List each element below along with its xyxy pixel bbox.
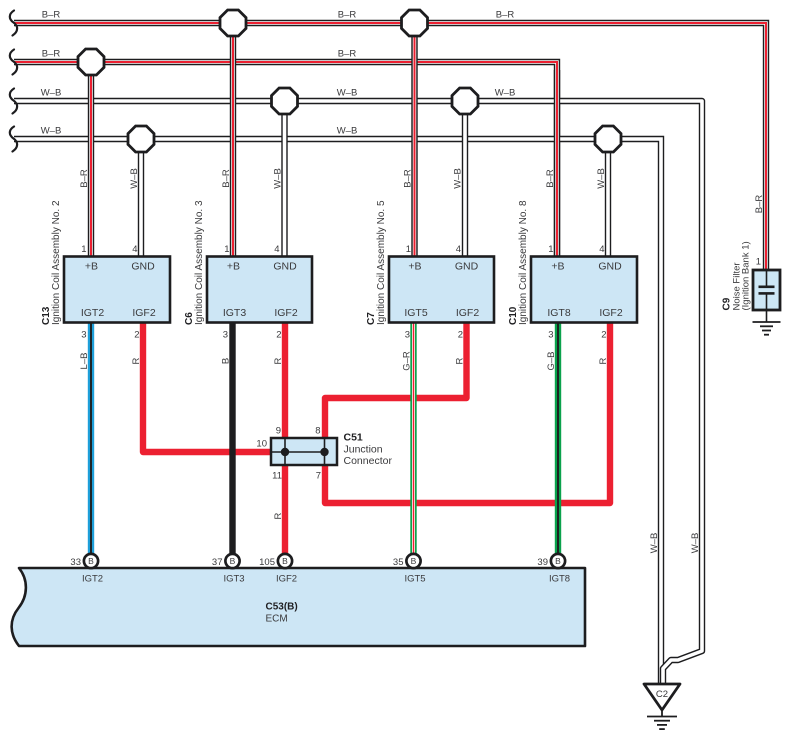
svg-text:B–R: B–R bbox=[221, 169, 232, 188]
svg-text:B–R: B–R bbox=[496, 10, 515, 21]
wire W-B drop to C10 GND bbox=[605, 139, 611, 256]
ECM pin circle 35 bbox=[406, 554, 420, 568]
C51 junction dot left bbox=[281, 448, 289, 456]
wire B-R drop to C13 +B bbox=[88, 62, 94, 256]
svg-text:Connector: Connector bbox=[344, 455, 393, 467]
svg-text:Ignition Coil Assembly No. 8: Ignition Coil Assembly No. 8 bbox=[518, 200, 529, 325]
octagon node row1 C7 bbox=[402, 10, 428, 36]
C51 junction dot right bbox=[320, 448, 328, 456]
svg-text:B–R: B–R bbox=[545, 169, 556, 188]
C9 capacitor plate top bbox=[759, 285, 775, 288]
svg-text:11: 11 bbox=[272, 471, 282, 482]
svg-text:IGF2: IGF2 bbox=[274, 307, 297, 319]
bus row 3 W-B bbox=[14, 101, 702, 684]
wire W-B drop to C6 GND bbox=[281, 101, 287, 256]
svg-text:4: 4 bbox=[456, 244, 461, 255]
wire W-B drop to C7 GND bbox=[462, 101, 468, 256]
svg-text:IGT3: IGT3 bbox=[223, 307, 246, 319]
svg-text:IGT8: IGT8 bbox=[547, 307, 570, 319]
svg-text:1: 1 bbox=[406, 244, 411, 255]
octagon node row1 C6 bbox=[220, 10, 246, 36]
svg-text:W–B: W–B bbox=[273, 168, 284, 189]
svg-text:IGT5: IGT5 bbox=[404, 574, 425, 585]
svg-text:R: R bbox=[273, 512, 284, 519]
svg-text:7: 7 bbox=[316, 471, 321, 482]
svg-text:35: 35 bbox=[393, 557, 404, 568]
red IGF2 wire C10 to C51 pin7 bbox=[325, 322, 610, 503]
svg-text:W–B: W–B bbox=[41, 126, 62, 137]
svg-text:R: R bbox=[273, 357, 284, 364]
svg-text:39: 39 bbox=[537, 557, 548, 568]
svg-text:+B: +B bbox=[85, 261, 98, 273]
C51 internal bus horizontal bbox=[271, 451, 325, 453]
C2 ground bar 4 bbox=[659, 728, 665, 730]
octagon node row3 C6 bbox=[272, 88, 298, 114]
coil box C7 bbox=[389, 257, 494, 323]
C9 capacitor lead bottom bbox=[766, 295, 768, 322]
C9 ground bar 2 bbox=[760, 325, 773, 327]
svg-text:+B: +B bbox=[227, 261, 240, 273]
coil box C10 bbox=[531, 257, 637, 323]
wire B C6 IGT3 to ECM 37 bbox=[229, 322, 235, 554]
bus row 1 B-R bbox=[14, 23, 766, 270]
wire break symbol row4 bbox=[10, 127, 17, 152]
svg-text:IGT3: IGT3 bbox=[223, 574, 244, 585]
svg-text:W–B: W–B bbox=[649, 533, 660, 554]
svg-text:9: 9 bbox=[276, 426, 281, 437]
svg-text:IGF2: IGF2 bbox=[456, 307, 479, 319]
svg-text:B: B bbox=[555, 556, 561, 566]
coil box C13 bbox=[64, 257, 170, 323]
octagon node row4 C10 bbox=[595, 126, 621, 152]
svg-text:3: 3 bbox=[223, 330, 228, 341]
svg-text:1: 1 bbox=[548, 244, 553, 255]
svg-text:G–R: G–R bbox=[402, 351, 413, 371]
wire L-B C13 IGT2 to ECM 33 bbox=[88, 322, 94, 554]
svg-text:Ignition Coil Assembly No. 2: Ignition Coil Assembly No. 2 bbox=[51, 200, 62, 325]
ECM pin circle 39 bbox=[551, 554, 565, 568]
svg-text:105: 105 bbox=[259, 557, 275, 568]
ECM box C53(B) bbox=[12, 568, 585, 646]
svg-text:IGF2: IGF2 bbox=[276, 574, 297, 585]
svg-text:ECM: ECM bbox=[266, 614, 288, 625]
ground connector C2 triangle bbox=[644, 684, 680, 710]
svg-text:2: 2 bbox=[601, 330, 606, 341]
C2 ground bar 1 bbox=[647, 716, 677, 718]
svg-text:2: 2 bbox=[276, 330, 281, 341]
svg-text:B–R: B–R bbox=[403, 169, 414, 188]
wire G-B C10 IGT8 to ECM 39 bbox=[555, 322, 561, 554]
C9 ground bar 3 bbox=[762, 330, 771, 332]
C9 ground bar 4 bbox=[764, 334, 769, 336]
svg-text:W–B: W–B bbox=[41, 88, 62, 99]
noise filter C9 box bbox=[753, 270, 780, 310]
svg-text:GND: GND bbox=[455, 261, 479, 273]
svg-text:33: 33 bbox=[70, 557, 81, 568]
svg-text:W–B: W–B bbox=[690, 533, 701, 554]
svg-text:IGT8: IGT8 bbox=[549, 574, 570, 585]
svg-text:4: 4 bbox=[274, 244, 279, 255]
wire B-R drop to C7 +B bbox=[411, 23, 417, 256]
svg-text:1: 1 bbox=[756, 257, 761, 268]
svg-text:IGT2: IGT2 bbox=[81, 307, 104, 319]
svg-text:B–R: B–R bbox=[42, 10, 61, 21]
svg-text:1: 1 bbox=[81, 244, 86, 255]
svg-text:B–R: B–R bbox=[42, 49, 61, 60]
C2 ground bar 2 bbox=[654, 720, 670, 722]
C9 capacitor plate bottom bbox=[759, 292, 775, 295]
svg-text:3: 3 bbox=[81, 330, 86, 341]
svg-text:R: R bbox=[598, 357, 609, 364]
svg-text:C51: C51 bbox=[344, 432, 363, 444]
red IGF2 wire C7 to C51 pin8 bbox=[325, 322, 467, 438]
wire B-R drop to C10 +B bbox=[554, 70, 560, 256]
svg-text:B–R: B–R bbox=[338, 10, 357, 21]
red IGF2 trunk C6 to ECM 105 bbox=[282, 322, 288, 554]
C51 internal wire vertical pin9-11 bbox=[284, 438, 286, 465]
bus row 2 B-R bbox=[14, 62, 557, 256]
svg-text:3: 3 bbox=[548, 330, 553, 341]
svg-text:IGT2: IGT2 bbox=[82, 574, 103, 585]
svg-text:R: R bbox=[455, 357, 466, 364]
C9 capacitor lead top bbox=[766, 270, 768, 286]
svg-text:(Ignition Bank 1): (Ignition Bank 1) bbox=[741, 241, 752, 310]
svg-text:W–B: W–B bbox=[337, 126, 358, 137]
octagon node row2 C13 bbox=[78, 49, 104, 75]
svg-text:W–B: W–B bbox=[453, 168, 464, 189]
svg-text:GND: GND bbox=[598, 261, 622, 273]
ECM pin circle 37 bbox=[225, 554, 239, 568]
svg-text:L–B: L–B bbox=[79, 353, 90, 370]
wire break symbol row3 bbox=[10, 89, 17, 114]
wire W-B drop to C13 GND bbox=[138, 139, 144, 256]
octagon node row3 C7 bbox=[452, 88, 478, 114]
svg-text:Junction: Junction bbox=[344, 444, 383, 456]
svg-text:B: B bbox=[230, 556, 236, 566]
svg-text:IGF2: IGF2 bbox=[599, 307, 622, 319]
bus row 4 W-B bbox=[14, 139, 661, 684]
svg-text:2: 2 bbox=[134, 330, 139, 341]
svg-text:GND: GND bbox=[273, 261, 297, 273]
svg-text:W–B: W–B bbox=[337, 88, 358, 99]
svg-text:C2: C2 bbox=[656, 689, 668, 700]
svg-text:IGT5: IGT5 bbox=[404, 307, 427, 319]
red IGF2 wire C13 to C51 pin10 bbox=[143, 322, 271, 452]
coil box C6 bbox=[207, 257, 312, 323]
svg-text:GND: GND bbox=[131, 261, 155, 273]
octagon node row4 C13 bbox=[128, 126, 154, 152]
svg-text:R: R bbox=[131, 357, 142, 364]
svg-text:37: 37 bbox=[212, 557, 223, 568]
svg-text:W–B: W–B bbox=[129, 168, 140, 189]
wire break symbol row1 bbox=[10, 11, 17, 36]
svg-text:G–B: G–B bbox=[546, 351, 557, 370]
svg-text:+B: +B bbox=[408, 261, 421, 273]
svg-text:B: B bbox=[221, 358, 232, 364]
svg-text:C53(B): C53(B) bbox=[266, 602, 298, 613]
svg-text:B–R: B–R bbox=[754, 195, 765, 214]
junction connector C51 box bbox=[271, 438, 337, 465]
C9 ground bar 1 bbox=[753, 321, 781, 323]
wire G-R C7 IGT5 to ECM 35 bbox=[410, 322, 416, 554]
svg-text:1: 1 bbox=[224, 244, 229, 255]
svg-text:10: 10 bbox=[256, 439, 267, 450]
C51 internal wire vertical pin8-7 bbox=[324, 438, 326, 465]
C2 ground bar 3 bbox=[657, 724, 667, 726]
svg-text:B–R: B–R bbox=[338, 49, 357, 60]
svg-text:+B: +B bbox=[551, 261, 564, 273]
svg-text:3: 3 bbox=[405, 330, 410, 341]
wire B-R drop to C6 +B bbox=[230, 23, 236, 256]
ECM pin circle 33 bbox=[84, 554, 98, 568]
svg-text:W–B: W–B bbox=[596, 168, 607, 189]
svg-text:B: B bbox=[411, 556, 417, 566]
svg-text:4: 4 bbox=[599, 244, 604, 255]
svg-text:8: 8 bbox=[315, 426, 320, 437]
svg-text:B: B bbox=[88, 556, 94, 566]
svg-text:B: B bbox=[282, 556, 288, 566]
svg-text:Ignition Coil Assembly No. 5: Ignition Coil Assembly No. 5 bbox=[376, 200, 387, 325]
svg-text:Ignition Coil Assembly No. 3: Ignition Coil Assembly No. 3 bbox=[194, 200, 205, 325]
svg-text:W–B: W–B bbox=[495, 88, 516, 99]
svg-text:IGF2: IGF2 bbox=[132, 307, 155, 319]
svg-text:2: 2 bbox=[458, 330, 463, 341]
wire break symbol row2 bbox=[10, 50, 17, 75]
svg-text:4: 4 bbox=[132, 244, 137, 255]
ECM pin circle 105 bbox=[278, 554, 292, 568]
svg-text:B–R: B–R bbox=[79, 169, 90, 188]
C2 ground stem bbox=[661, 710, 663, 717]
